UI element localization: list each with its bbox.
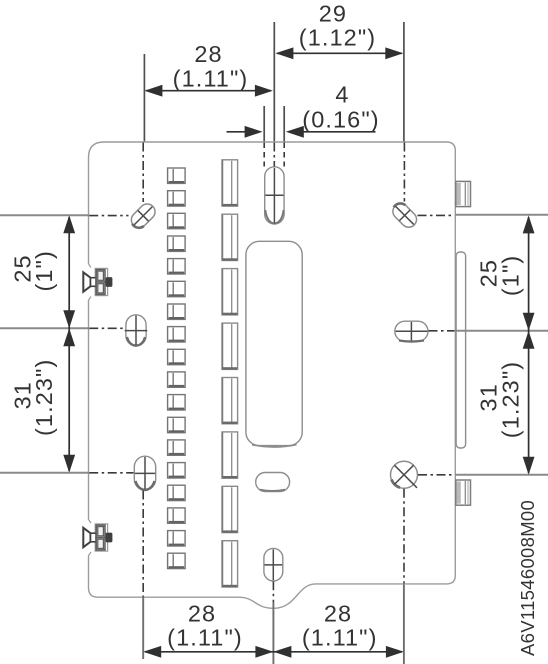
centerline top slot right edge: [283, 143, 285, 167]
mounting plate outline: [89, 142, 456, 608]
right clip bottom: [456, 480, 471, 505]
svg-text:(0.16"): (0.16"): [302, 106, 379, 132]
svg-text:(1.23"): (1.23"): [31, 359, 57, 436]
svg-text:(1.11"): (1.11"): [173, 65, 249, 91]
svg-text:4: 4: [335, 81, 349, 107]
svg-text:28: 28: [194, 41, 222, 67]
bottom center slot hole: [264, 548, 283, 581]
centerline right y330: [429, 330, 455, 332]
centerline bottom-right hole vertical: [403, 489, 405, 584]
hole top-right (tilted slot with X): [389, 200, 419, 230]
svg-text:(1"): (1"): [497, 255, 523, 296]
svg-text:28: 28: [188, 600, 216, 626]
centerline left y472: [89, 472, 133, 474]
centerline top-right hole vertical: [403, 143, 405, 202]
center window rounded rectangle: [246, 241, 302, 447]
centerline bottom slot vertical: [272, 581, 274, 602]
hole top-left (tilted slot with X): [128, 201, 158, 231]
dimension 25 / 31 left: [0, 215, 89, 473]
dimension 4 top slot width: [227, 81, 380, 141]
svg-text:28: 28: [324, 600, 352, 626]
centerline top-left hole vertical: [142, 143, 144, 203]
top center slot hole: [265, 167, 284, 224]
svg-text:(1.11"): (1.11"): [302, 625, 378, 651]
bottom oval opening: [256, 473, 290, 492]
centerline bottom-left hole vertical: [142, 491, 144, 597]
hole middle-left (vertical slot with cross): [125, 315, 148, 346]
svg-text:(1.11"): (1.11"): [167, 625, 243, 651]
hole bottom-right (circle with X): [391, 461, 418, 488]
centerline right y215: [418, 214, 455, 216]
dimension 25 / 31 right: [455, 215, 548, 475]
dimension 28 / 28 bottom: [143, 585, 404, 664]
hole middle-right (horizontal slot with cross): [395, 321, 428, 341]
right clip top: [456, 181, 471, 206]
svg-text:(1.12"): (1.12"): [299, 25, 376, 51]
vent slot column: [222, 160, 238, 587]
right side rail strip: [456, 252, 466, 448]
centerline left y215: [89, 215, 128, 217]
svg-text:29: 29: [319, 1, 347, 27]
screw fastener bottom-left edge: [83, 520, 112, 556]
hole bottom-left (vertical slot with cross): [134, 456, 155, 490]
dimension 28 top-left: [144, 41, 273, 142]
centerline top slot left edge: [263, 143, 265, 167]
screw fastener top-left edge: [83, 264, 112, 300]
terminal square column: [168, 168, 186, 569]
svg-text:(1.23"): (1.23"): [497, 361, 523, 438]
svg-text:A6V11546008M00: A6V11546008M00: [517, 500, 538, 656]
centerline right y474: [418, 474, 455, 476]
dimension 29 top-right: [274, 1, 404, 142]
centerline top slot center: [273, 143, 275, 167]
svg-text:(1"): (1"): [31, 250, 57, 291]
centerline left y328: [89, 327, 125, 329]
